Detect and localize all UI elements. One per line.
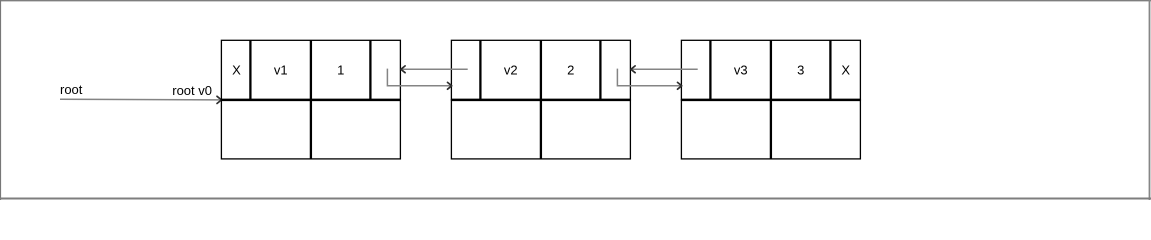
svg-text:v2: v2 [504,63,518,78]
svg-text:3: 3 [797,63,804,78]
wire root pointer [60,96,221,103]
wire N2 next pointer to N3 [617,69,681,90]
svg-text:2: 2 [567,63,574,78]
svg-text:X: X [841,63,850,78]
label N3 next "X" [841,63,850,78]
svg-text:1: 1 [337,63,344,78]
label root v0 [172,83,212,98]
label root [60,82,83,97]
svg-text:X: X [232,63,241,78]
label N2 field "2" [567,63,574,78]
node N2 bottom row [451,100,630,159]
node N1 bottom row [221,100,400,159]
wire N2 prev pointer to N1 [401,66,468,73]
node N1 top row [221,40,400,100]
node N3 top row [681,40,860,100]
node N3 bottom row [681,100,860,159]
node N2 top row [451,40,630,100]
wire N3 prev pointer to N2 [631,66,698,73]
wire N1 next pointer to N2 [387,69,451,90]
label N3 value "v3" [734,63,748,78]
svg-text:v1: v1 [274,63,288,78]
label N1 value "v1" [274,63,288,78]
label N1 field "1" [337,63,344,78]
label N3 field "3" [797,63,804,78]
svg-text:root v0: root v0 [172,83,212,98]
svg-text:v3: v3 [734,63,748,78]
label N1 prev "X" [232,63,241,78]
label N2 value "v2" [504,63,518,78]
svg-text:root: root [60,82,83,97]
